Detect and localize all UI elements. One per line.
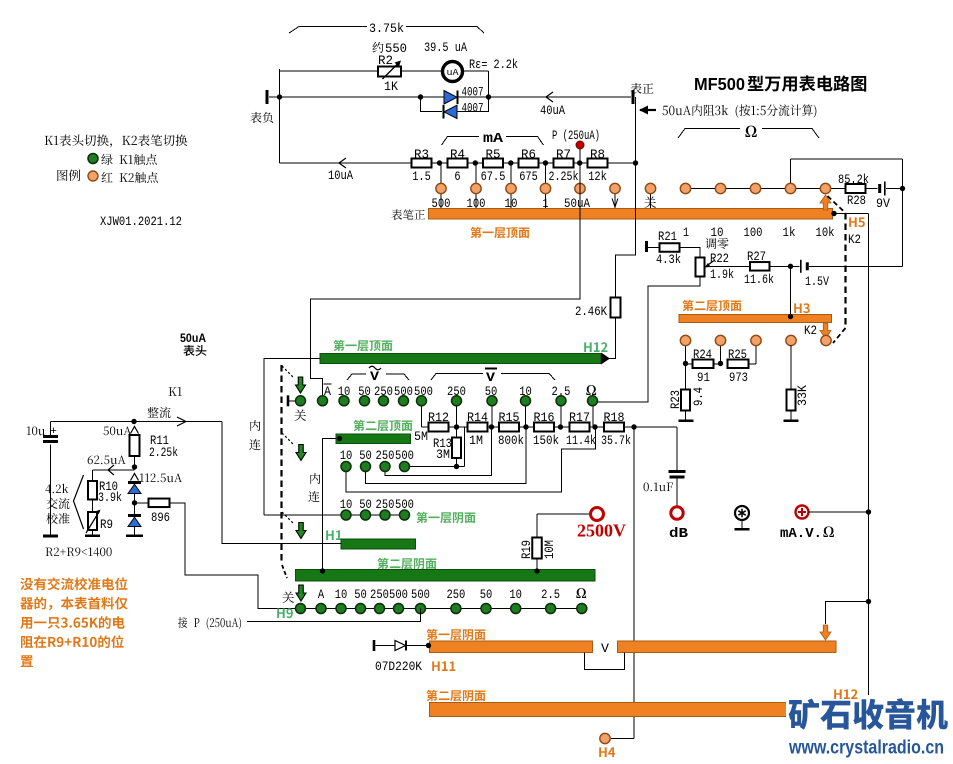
svg-text:3.9k: 3.9k	[98, 491, 122, 505]
svg-text:50uA: 50uA	[180, 331, 206, 345]
svg-text:R9: R9	[100, 518, 113, 532]
svg-text:R23: R23	[669, 390, 683, 409]
svg-text:V: V	[370, 369, 379, 384]
svg-text:150k: 150k	[533, 434, 559, 448]
svg-text:R14: R14	[467, 411, 488, 425]
svg-text:10: 10	[711, 226, 724, 240]
svg-text:R19: R19	[520, 540, 534, 559]
svg-text:85.2k: 85.2k	[838, 173, 869, 187]
svg-text:P (250uA): P (250uA)	[552, 129, 600, 143]
svg-text:A: A	[318, 588, 325, 602]
svg-text:2.25k: 2.25k	[549, 170, 579, 184]
svg-text:V: V	[486, 370, 495, 385]
svg-text:3M: 3M	[436, 448, 450, 462]
svg-text:K2: K2	[804, 324, 817, 338]
svg-text:R17: R17	[569, 411, 590, 425]
svg-text:500: 500	[411, 588, 430, 602]
svg-text:10k: 10k	[816, 226, 835, 240]
svg-text:50: 50	[480, 588, 493, 602]
svg-text:R3: R3	[414, 148, 429, 162]
svg-text:R18: R18	[604, 411, 625, 425]
svg-text:250: 250	[370, 588, 389, 602]
svg-text:1.5: 1.5	[412, 170, 431, 184]
svg-text:675: 675	[519, 170, 538, 184]
svg-text:9V: 9V	[876, 197, 890, 211]
svg-text:mA.V.: mA.V.	[780, 526, 822, 542]
svg-text:R6: R6	[521, 148, 536, 162]
svg-text:35.7k: 35.7k	[601, 434, 631, 448]
svg-text:100: 100	[744, 226, 763, 240]
svg-text:2500V: 2500V	[577, 521, 626, 541]
svg-text:11.4k: 11.4k	[566, 434, 596, 448]
svg-text:91: 91	[697, 371, 710, 385]
svg-text:10: 10	[335, 588, 348, 602]
svg-text:39.5 uA: 39.5 uA	[424, 41, 467, 55]
svg-text:1.9k: 1.9k	[710, 268, 734, 282]
svg-text:800k: 800k	[498, 434, 524, 448]
svg-text:uA: uA	[447, 67, 459, 78]
svg-text:R24: R24	[693, 348, 712, 362]
svg-text:R5: R5	[486, 148, 501, 162]
svg-text:XJW01.2021.12: XJW01.2021.12	[100, 215, 182, 229]
svg-text:2.25k: 2.25k	[149, 446, 178, 460]
svg-text:11.6k: 11.6k	[744, 273, 774, 287]
svg-text:10M: 10M	[543, 540, 557, 559]
svg-text:R8: R8	[590, 148, 605, 162]
svg-text:1: 1	[683, 226, 689, 240]
svg-text:dB: dB	[669, 526, 689, 542]
svg-text:V: V	[601, 642, 610, 656]
svg-text:1M: 1M	[469, 434, 483, 448]
svg-text:67.5: 67.5	[481, 170, 506, 184]
svg-text:MF500: MF500	[694, 74, 745, 94]
svg-text:1K: 1K	[384, 80, 398, 94]
svg-text:R7: R7	[556, 148, 571, 162]
svg-text:R2: R2	[378, 54, 393, 68]
svg-text:4007: 4007	[462, 86, 484, 100]
svg-text:896: 896	[151, 511, 170, 525]
svg-text:R28: R28	[847, 194, 866, 208]
svg-text:Rε= 2.2k: Rε= 2.2k	[469, 58, 518, 72]
svg-text:6: 6	[454, 170, 460, 184]
svg-text:R22: R22	[710, 252, 729, 266]
svg-text:33K: 33K	[796, 385, 810, 406]
svg-text:50: 50	[354, 588, 367, 602]
svg-text:R25: R25	[728, 348, 747, 362]
svg-text:K2: K2	[848, 233, 861, 247]
svg-text:R27: R27	[747, 250, 766, 264]
svg-text:2.5: 2.5	[541, 588, 560, 602]
svg-text:R21: R21	[658, 230, 677, 244]
svg-text:10: 10	[509, 588, 522, 602]
svg-text:2.46K: 2.46K	[575, 305, 607, 319]
svg-text:1.5V: 1.5V	[805, 275, 829, 289]
svg-text:973: 973	[729, 371, 748, 385]
svg-text:9.4: 9.4	[692, 387, 706, 406]
svg-text:5M: 5M	[414, 430, 428, 444]
svg-text:R16: R16	[534, 411, 555, 425]
svg-text:250: 250	[446, 588, 465, 602]
svg-text:12k: 12k	[588, 170, 607, 184]
svg-text:1k: 1k	[783, 226, 796, 240]
svg-text:10uA: 10uA	[328, 169, 353, 183]
svg-text:mA: mA	[483, 132, 504, 147]
svg-text:4007: 4007	[462, 102, 484, 116]
svg-text:www.crystalradio.cn: www.crystalradio.cn	[788, 738, 944, 759]
svg-text:R12: R12	[428, 411, 449, 425]
svg-text:3.75k: 3.75k	[369, 22, 404, 36]
svg-text:07D220K: 07D220K	[375, 660, 422, 674]
svg-text:R4: R4	[450, 148, 465, 162]
svg-text:R15: R15	[499, 411, 520, 425]
svg-text:500: 500	[389, 588, 408, 602]
svg-text:4.3k: 4.3k	[656, 253, 681, 267]
svg-text:40uA: 40uA	[540, 104, 565, 118]
